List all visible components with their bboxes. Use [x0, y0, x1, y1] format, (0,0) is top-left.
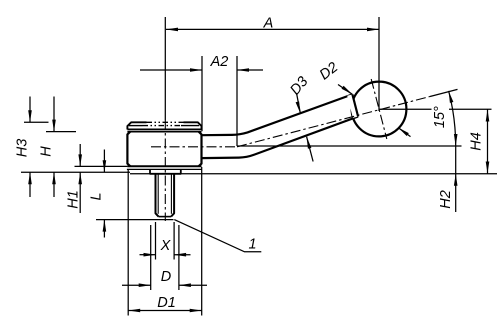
- ball center horizontal line: [379, 108, 492, 110]
- base line left: [21, 171, 130, 173]
- dimension H arrow top: [52, 120, 56, 132]
- thread minor line left: [157, 175, 159, 214]
- dimension H3 arrow top: [28, 110, 32, 122]
- angle 15 arc: [449, 91, 456, 146]
- dimension D3 arrow lower: [307, 137, 312, 149]
- angle arc arrow bottom: [454, 134, 458, 146]
- stud left edge: [156, 174, 159, 217]
- handle top edge: [202, 94, 353, 135]
- dimension L upper line: [103, 150, 105, 173]
- dimension X arrow left: [144, 253, 156, 257]
- dimension H4 label: [469, 132, 485, 151]
- svg-text:H4: H4: [469, 132, 485, 151]
- extension D right: [178, 225, 180, 290]
- extension X right: [173, 222, 175, 260]
- body bottom chamfer line: [127, 168, 202, 170]
- dimension D2 label: [317, 59, 341, 83]
- dimension H1 upper line: [79, 144, 81, 166]
- cap (knurled head top): [127, 122, 201, 129]
- dimension D1 arrow right: [190, 309, 202, 313]
- dimension H lower line: [53, 172, 55, 197]
- item 1 label: [248, 237, 256, 253]
- dimension A arrow right: [367, 28, 379, 32]
- reference stub stud end: [96, 219, 174, 221]
- dimension D line left: [122, 284, 151, 286]
- dimension A line: [166, 28, 379, 30]
- vertical centerline of body/stud: [164, 120, 166, 221]
- dimension D2 lower line: [398, 128, 411, 137]
- dimension H4 arrow bottom: [486, 162, 490, 174]
- reference stub body top: [46, 131, 76, 133]
- thread minor line right: [170, 175, 172, 214]
- dimension H1 arrow bottom: [78, 172, 82, 184]
- angle 15 label: [432, 106, 448, 128]
- dimension H3 upper line: [29, 97, 31, 123]
- dimension H2 label: [438, 190, 454, 209]
- dimension L lower line: [103, 220, 105, 238]
- collar boss: [150, 169, 181, 173]
- reference stub body bottom: [75, 165, 128, 167]
- dimension H2 arrow: [454, 174, 458, 186]
- ball flat junction face: [352, 94, 358, 116]
- dimension H3 lower line: [29, 172, 31, 197]
- svg-text:X: X: [160, 238, 172, 254]
- dimension D2 arrow lower: [398, 128, 409, 137]
- ball perpendicular centerline: [371, 79, 387, 139]
- extension line A2 left: [201, 56, 203, 131]
- dimension A label: [263, 16, 274, 32]
- ball flat white backing: [347, 94, 358, 118]
- extension X left: [155, 222, 157, 260]
- dimension H4 arrow top: [486, 110, 490, 122]
- dimension H4 line: [487, 110, 489, 174]
- svg-text:D: D: [161, 269, 171, 285]
- dimension H3 arrow bottom: [28, 172, 32, 184]
- dimension H1 arrow top: [78, 154, 82, 166]
- svg-text:1: 1: [248, 237, 256, 253]
- svg-text:H2: H2: [438, 190, 454, 209]
- dimension D label: [161, 269, 171, 285]
- svg-text:L: L: [89, 192, 105, 200]
- reference stub cap top: [24, 121, 49, 123]
- dimension D1 line: [128, 310, 202, 312]
- dimension H1 label: [66, 190, 82, 209]
- dimension D arrow left: [139, 283, 151, 287]
- dimension H label: [39, 146, 55, 157]
- dimension D3 upper line: [297, 93, 301, 114]
- dimension H3 label: [15, 139, 31, 158]
- svg-text:A: A: [263, 16, 274, 32]
- angle arc arrow top: [449, 91, 454, 103]
- knurl line on cap: [129, 125, 199, 127]
- body left edge: [127, 132, 130, 167]
- cap bottom edge: [127, 128, 201, 130]
- dimension D1 arrow left: [128, 309, 140, 313]
- dimension X label: [160, 238, 172, 254]
- extension line right for A: [378, 17, 380, 111]
- dimension X arrow right: [174, 253, 186, 257]
- horizontal centerline of lever root: [151, 146, 237, 148]
- handle bottom edge: [202, 117, 359, 159]
- svg-text:H3: H3: [15, 139, 31, 158]
- dimension D1 label: [157, 295, 176, 311]
- extension line A2 right: [236, 56, 238, 146]
- stud bottom edge: [159, 216, 172, 218]
- dimension L arrow bottom: [103, 220, 107, 232]
- svg-text:A2: A2: [210, 54, 229, 70]
- svg-text:H1: H1: [66, 190, 82, 209]
- dimension A2 line left part: [140, 69, 202, 71]
- dimension H upper line: [53, 97, 55, 132]
- dimension A2 arrow right: [237, 68, 249, 72]
- angle reference ray: [237, 145, 462, 147]
- dimension A2 label: [210, 54, 229, 70]
- extension D left: [150, 225, 152, 290]
- dimension X line left: [140, 254, 156, 256]
- dimension A2 arrow left: [190, 68, 202, 72]
- inclined lever centerline: [237, 97, 430, 147]
- ball end: [352, 82, 407, 137]
- dimension A2 line right part: [237, 69, 263, 71]
- body top edge: [127, 131, 201, 133]
- extension D1 left: [127, 170, 129, 316]
- dimension D arrow right: [179, 283, 191, 287]
- svg-text:D1: D1: [157, 295, 176, 311]
- dimension D2 upper line: [338, 85, 352, 95]
- dimension L arrow top: [103, 160, 107, 172]
- svg-text:H: H: [39, 146, 55, 157]
- dimension D3 lower line: [307, 137, 314, 162]
- dimension D2 arrow upper: [342, 86, 353, 95]
- dimension H arrow bottom: [52, 172, 56, 184]
- stud right edge: [171, 174, 174, 217]
- dimension H1 lower line: [79, 172, 81, 213]
- svg-text:15°: 15°: [432, 106, 448, 128]
- inclined centerline solid tip: [430, 89, 458, 96]
- body bottom edge: [127, 165, 201, 167]
- dimension X line right: [174, 254, 190, 256]
- dimension H2 line: [455, 146, 457, 212]
- dimension D line right: [179, 284, 207, 286]
- dimension L label: [89, 192, 105, 200]
- base line right: [130, 173, 497, 175]
- dimension A arrow left: [166, 28, 178, 32]
- dimension D3 arrow upper: [296, 101, 301, 113]
- extension line left for A: [164, 17, 166, 120]
- leader line to item 1: [174, 220, 261, 252]
- dimension D3 label: [287, 74, 311, 98]
- extension D1 right: [201, 167, 203, 316]
- body right edge: [199, 132, 202, 167]
